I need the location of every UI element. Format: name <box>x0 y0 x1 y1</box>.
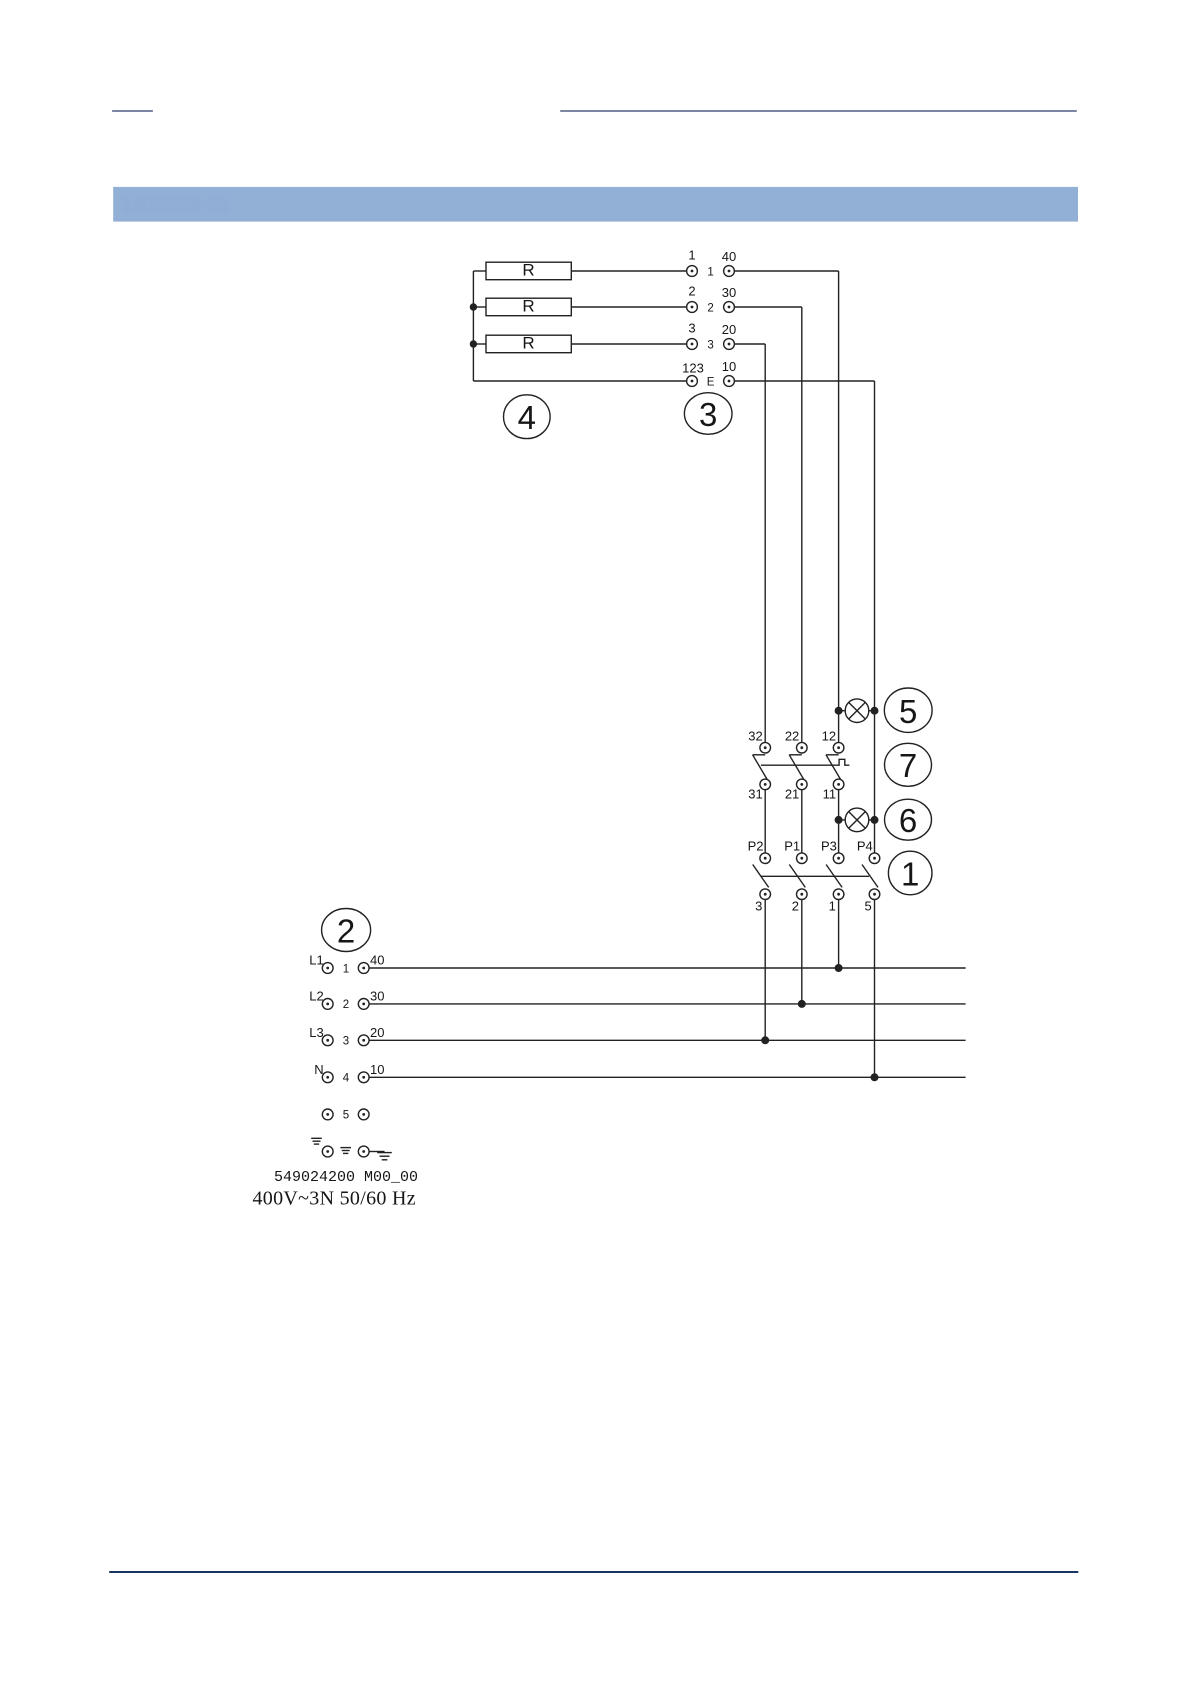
lamp H1 <box>839 699 875 723</box>
svg-text:L3: L3 <box>309 1025 323 1040</box>
callout circle 5 <box>884 688 932 732</box>
lamp H2 <box>839 808 875 832</box>
svg-text:40: 40 <box>722 249 736 264</box>
section banner <box>113 187 1078 222</box>
wire net 30 horizontal <box>734 306 801 308</box>
wire E row horizontal <box>473 380 686 382</box>
svg-text:10: 10 <box>722 359 736 374</box>
callout circle 4 <box>504 395 551 439</box>
svg-text:3: 3 <box>707 339 713 351</box>
svg-text:1: 1 <box>343 963 349 975</box>
wire R3 left stub <box>473 343 486 345</box>
wire 30 between S7 and S1 <box>801 790 803 853</box>
junction lamp H2 right <box>871 817 878 824</box>
svg-text:4: 4 <box>518 399 536 436</box>
svg-text:P4: P4 <box>857 838 873 853</box>
junction bus N <box>871 1074 878 1081</box>
terminal X2 row PE <box>322 1146 369 1157</box>
terminal X3 pin 3 left <box>687 339 698 350</box>
switch S7 contact 22-21 <box>789 742 807 789</box>
wire resistor left bus vertical <box>472 271 474 381</box>
svg-text:40: 40 <box>370 953 384 968</box>
svg-text:2: 2 <box>337 913 355 950</box>
junction bus L1 <box>835 965 842 972</box>
junction lamp H1 right <box>871 707 878 714</box>
junction resistor bus top <box>470 304 476 310</box>
callout circle 6 <box>885 799 932 840</box>
junction resistor bus bottom <box>470 341 476 347</box>
terminal X3 pin 1 left <box>687 266 698 277</box>
svg-text:5: 5 <box>864 898 871 913</box>
svg-text:1: 1 <box>829 898 836 913</box>
svg-text:12: 12 <box>822 729 836 744</box>
terminal X3 pin E left <box>687 376 698 387</box>
switch S7 contact 12-11 <box>826 742 844 789</box>
junction bus L3 <box>762 1037 769 1044</box>
resistor R1 <box>486 262 571 280</box>
bus wire 40 / L1 <box>369 967 966 969</box>
switch S1 coupling bar <box>761 875 869 877</box>
svg-text:1: 1 <box>688 248 695 263</box>
wire R2 left stub <box>473 306 486 308</box>
svg-text:2: 2 <box>343 999 349 1011</box>
junction bus L2 <box>799 1001 806 1008</box>
svg-text:3: 3 <box>755 898 762 913</box>
callout circle 3 <box>684 393 732 435</box>
ground symbol left <box>311 1138 322 1144</box>
svg-text:2: 2 <box>707 302 713 314</box>
terminal X2 row N <box>322 1072 369 1083</box>
wire contact 3 to bus L3 <box>764 900 766 1041</box>
header rule right <box>560 110 1077 111</box>
switch S1 contact P4-5 <box>862 853 880 900</box>
switch S7 coupling bar with pulse symbol <box>761 759 850 765</box>
svg-text:22: 22 <box>785 729 799 744</box>
terminal X3 pin E right (10) <box>724 376 735 387</box>
bus wire 10 / N <box>369 1076 966 1078</box>
wire R2 to terminal 2 <box>571 306 686 308</box>
svg-text:E: E <box>707 376 715 388</box>
svg-text:R: R <box>522 334 534 353</box>
wire R1 left stub <box>473 270 486 272</box>
bus wire 30 / L2 <box>369 1003 966 1005</box>
callout circle 7 <box>885 743 932 786</box>
svg-text:7: 7 <box>899 747 917 784</box>
svg-text:20: 20 <box>370 1025 384 1040</box>
svg-text:1: 1 <box>901 856 919 893</box>
svg-text:2: 2 <box>792 898 799 913</box>
switch S7 contact 32-31 <box>753 742 771 789</box>
terminal X2 row L3 <box>322 1035 369 1046</box>
terminal X2 row L2 <box>322 999 369 1010</box>
terminal X3 pin 3 right (20) <box>724 339 735 350</box>
wire R3 to terminal 3 <box>571 343 686 345</box>
svg-text:10: 10 <box>370 1062 384 1077</box>
junction lamp H1 left <box>835 707 842 714</box>
svg-text:L1: L1 <box>309 953 323 968</box>
svg-text:R: R <box>522 297 534 316</box>
wire net 10 vertical <box>874 381 876 853</box>
svg-text:1: 1 <box>707 266 713 278</box>
resistor R3 <box>486 335 571 353</box>
svg-text:400V~3N 50/60 Hz: 400V~3N 50/60 Hz <box>253 1187 416 1209</box>
svg-text:5: 5 <box>343 1110 349 1122</box>
svg-text:N: N <box>314 1062 323 1077</box>
bus wire 20 / L3 <box>369 1039 966 1041</box>
wire R1 to terminal 1 <box>571 270 686 272</box>
wire contact 1 to bus L1 <box>838 900 840 969</box>
svg-text:P3: P3 <box>821 838 837 853</box>
junction lamp H2 left <box>835 817 842 824</box>
svg-text:21: 21 <box>785 786 799 801</box>
switch S1 contact P3-1 <box>826 853 844 900</box>
svg-text:11: 11 <box>823 786 837 801</box>
svg-text:123: 123 <box>682 361 704 376</box>
wire contact 5 to bus N <box>874 900 876 1078</box>
footer rule <box>109 1571 1078 1573</box>
wire 40 between S7 and S1 <box>838 790 840 853</box>
terminal X2 row L1 <box>322 963 369 974</box>
wire net 20 vertical <box>764 344 766 742</box>
svg-text:R: R <box>522 261 534 280</box>
svg-text:6: 6 <box>899 802 917 839</box>
svg-text:20: 20 <box>722 322 736 337</box>
switch S1 contact P1-2 <box>789 853 807 900</box>
ground symbol middle <box>340 1148 351 1154</box>
wire net 10 horizontal <box>734 380 874 382</box>
terminal X2 row 5 <box>322 1109 369 1120</box>
svg-text:3: 3 <box>699 396 717 433</box>
svg-text:P2: P2 <box>748 838 764 853</box>
svg-text:30: 30 <box>722 285 736 300</box>
terminal X3 pin 2 right (30) <box>724 302 735 313</box>
svg-text:549024200 M00_00: 549024200 M00_00 <box>274 1169 418 1186</box>
wire contact 2 to bus L2 <box>801 900 803 1004</box>
terminal X3 pin 1 right (40) <box>724 266 735 277</box>
svg-text:L2: L2 <box>309 988 323 1003</box>
svg-text:4: 4 <box>343 1073 350 1085</box>
ground symbol right (earth) <box>369 1152 392 1160</box>
callout circle 1 <box>888 851 932 895</box>
svg-text:30: 30 <box>370 988 384 1003</box>
header rule left <box>112 110 153 111</box>
wire 20 between S7 and S1 <box>764 790 766 853</box>
svg-text:3: 3 <box>343 1036 349 1048</box>
wire net 20 horizontal <box>734 343 765 345</box>
svg-text:31: 31 <box>748 786 762 801</box>
wire net 30 vertical <box>801 307 803 742</box>
switch S1 contact P2-3 <box>753 853 771 900</box>
wire net 40 horizontal <box>734 270 838 272</box>
svg-text:P1: P1 <box>784 838 800 853</box>
resistor R2 <box>486 298 571 316</box>
terminal X3 pin 2 left <box>687 302 698 313</box>
svg-text:2: 2 <box>688 284 695 299</box>
svg-text:32: 32 <box>748 729 762 744</box>
svg-text:5: 5 <box>899 693 917 730</box>
callout circle 2 <box>322 909 371 952</box>
wire net 40 vertical <box>838 271 840 742</box>
svg-text:140/2016-18: 140/2016-18 <box>122 195 229 216</box>
svg-text:3: 3 <box>688 321 695 336</box>
